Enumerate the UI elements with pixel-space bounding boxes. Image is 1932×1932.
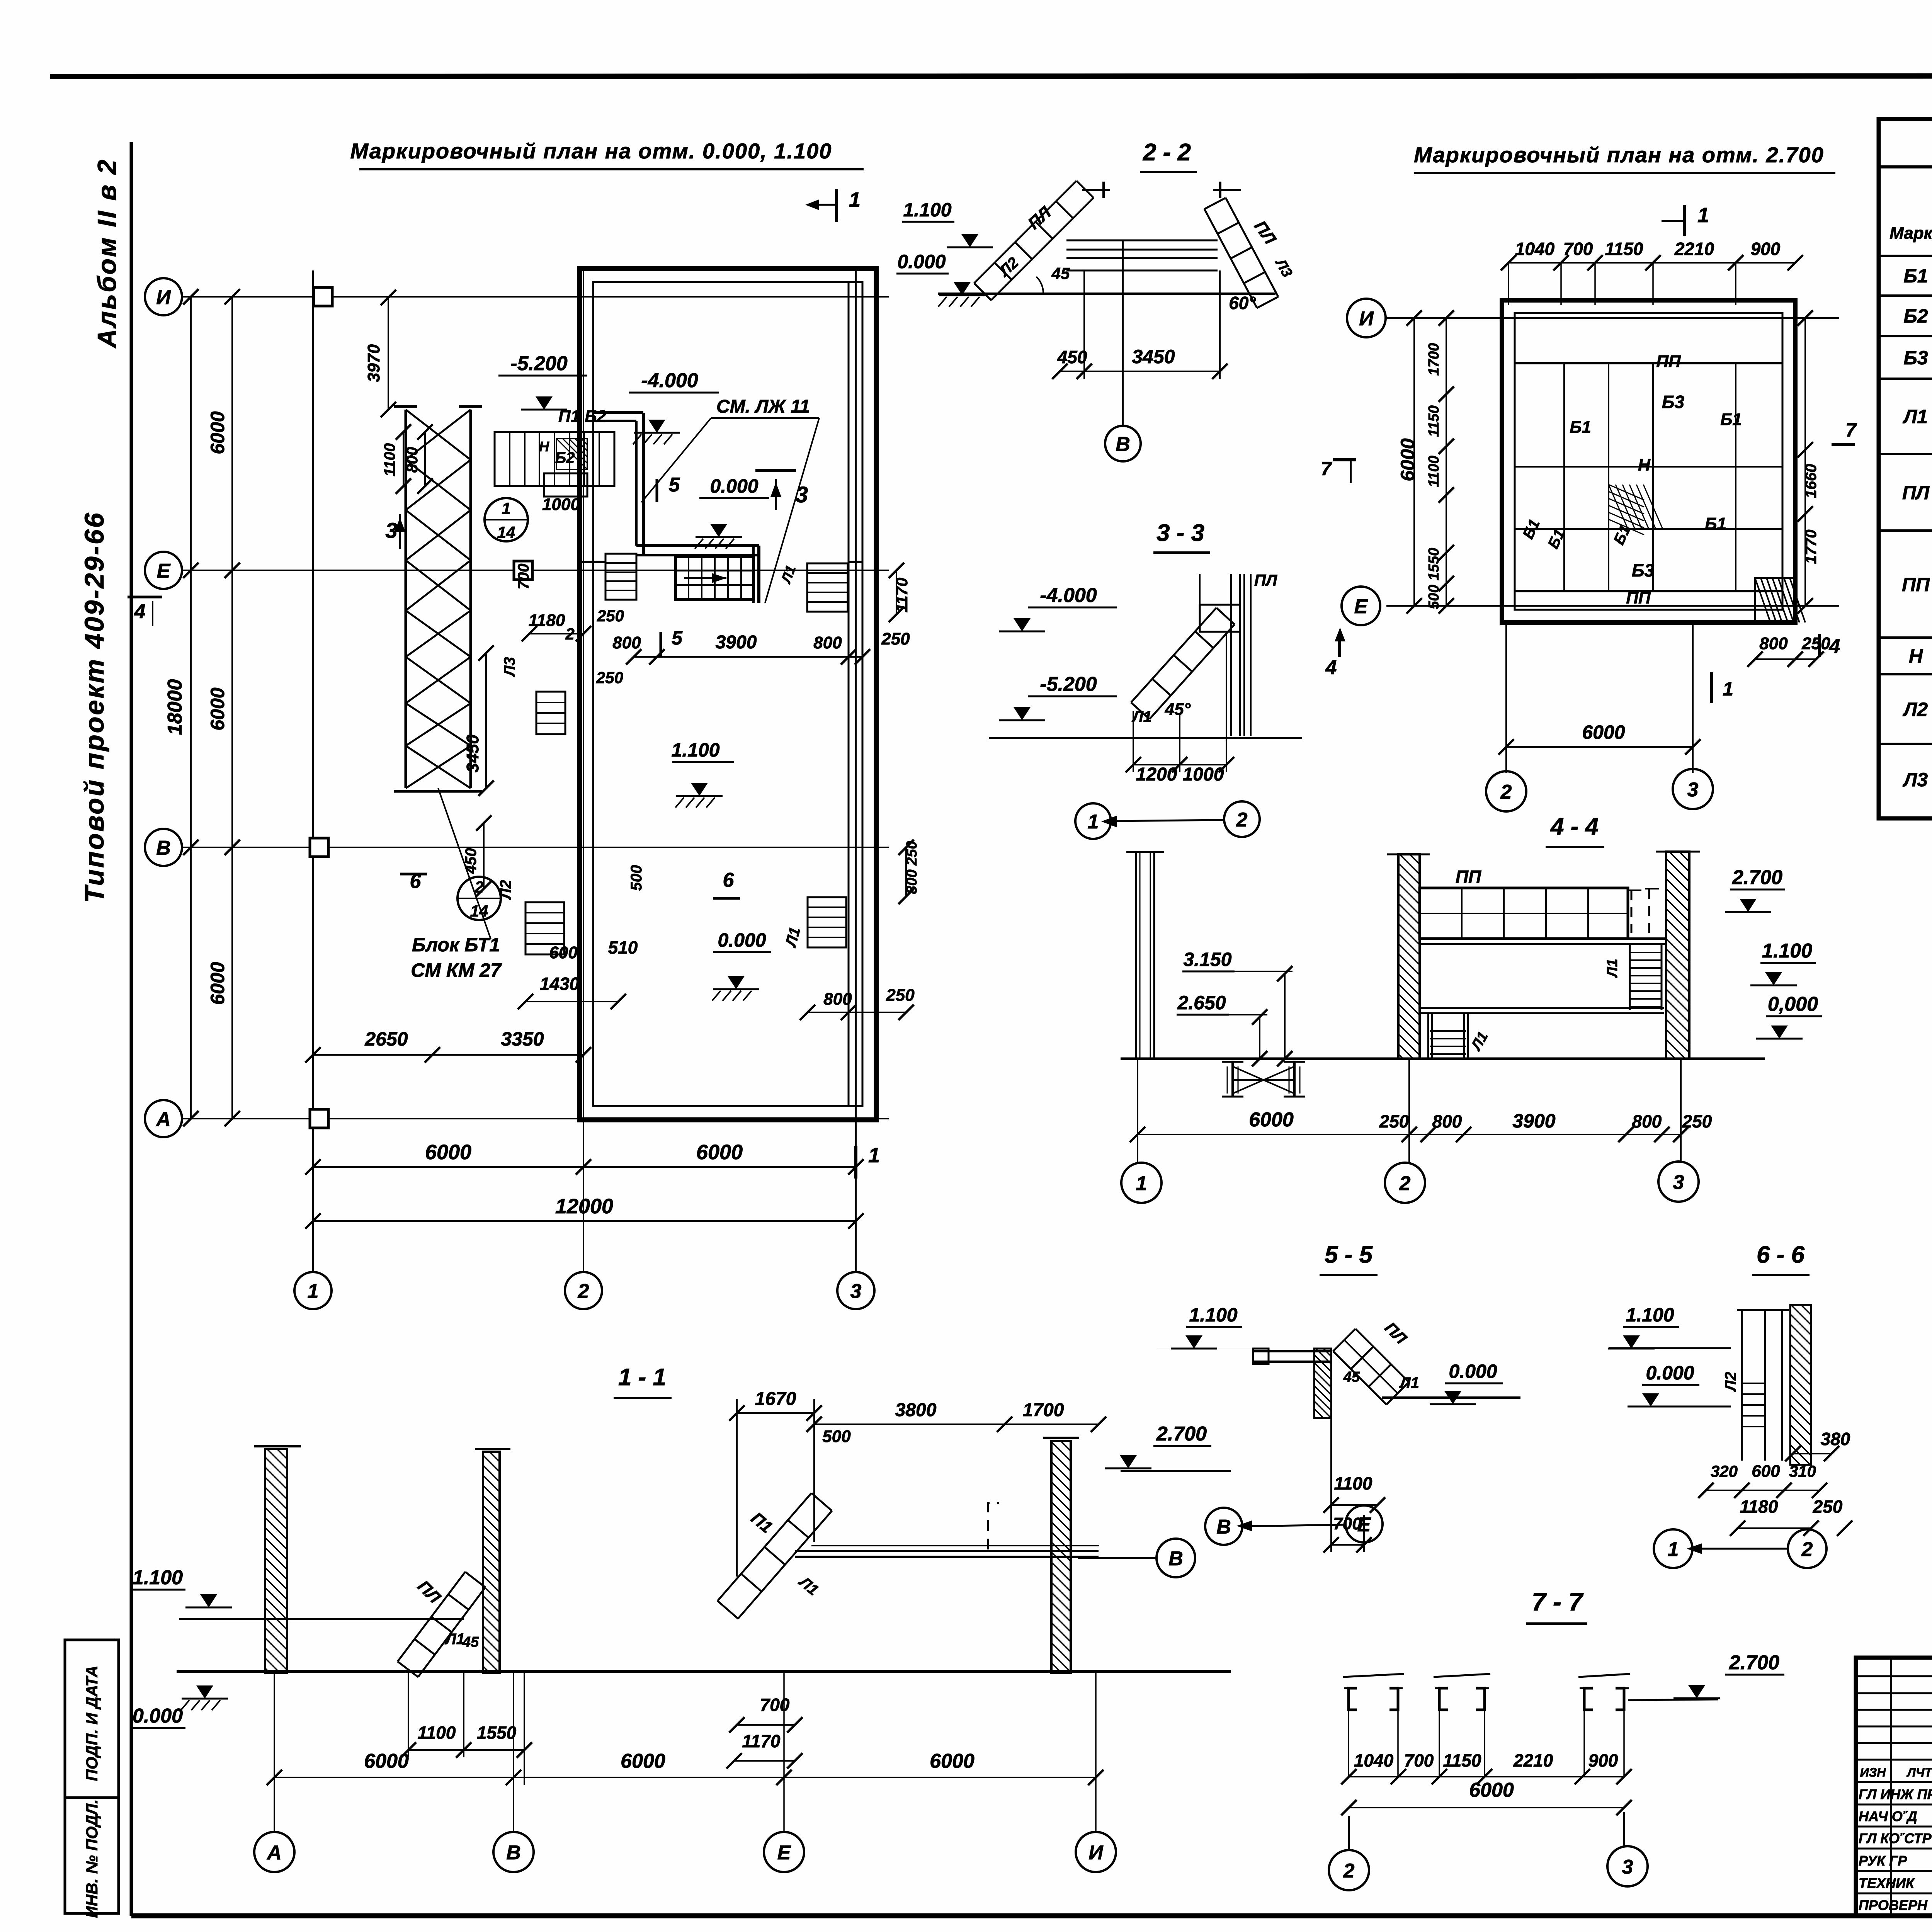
svg-text:2650: 2650 <box>364 1028 408 1050</box>
svg-text:250: 250 <box>1682 1111 1712 1131</box>
svg-text:СМ. ЛЖ 11: СМ. ЛЖ 11 <box>716 396 810 417</box>
svg-text:0,000: 0,000 <box>1768 993 1818 1015</box>
svg-text:3: 3 <box>1622 1856 1633 1878</box>
svg-text:6000: 6000 <box>1582 721 1625 743</box>
svg-text:В: В <box>156 837 171 859</box>
svg-text:450: 450 <box>1057 347 1087 367</box>
svg-text:1.100: 1.100 <box>671 739 719 761</box>
svg-text:2: 2 <box>1343 1860 1355 1882</box>
svg-text:Л1: Л1 <box>1903 406 1928 427</box>
svg-text:3: 3 <box>1687 779 1699 801</box>
svg-text:6000: 6000 <box>207 962 228 1005</box>
svg-text:СМ КМ 27: СМ КМ 27 <box>411 959 502 981</box>
svg-text:4 - 4: 4 - 4 <box>1550 813 1599 840</box>
svg-text:800: 800 <box>813 633 842 652</box>
svg-text:1040: 1040 <box>1515 239 1555 259</box>
svg-text:250: 250 <box>597 607 624 625</box>
svg-text:Л3: Л3 <box>501 657 518 677</box>
svg-text:3: 3 <box>1673 1171 1684 1194</box>
svg-text:7 - 7: 7 - 7 <box>1532 1587 1584 1616</box>
svg-text:0.000: 0.000 <box>133 1705 183 1727</box>
svg-text:0.000: 0.000 <box>718 929 766 951</box>
svg-text:6000: 6000 <box>696 1141 743 1164</box>
svg-text:Б3: Б3 <box>1903 347 1928 369</box>
svg-text:1.100: 1.100 <box>1626 1304 1674 1326</box>
svg-text:1: 1 <box>849 188 861 211</box>
svg-text:Л2: Л2 <box>1903 699 1928 720</box>
svg-text:1430: 1430 <box>540 974 580 994</box>
svg-text:Е: Е <box>777 1842 791 1864</box>
svg-text:4: 4 <box>1325 656 1337 679</box>
svg-text:250: 250 <box>1801 634 1830 653</box>
svg-text:1550: 1550 <box>477 1723 517 1743</box>
svg-text:И: И <box>1088 1842 1104 1864</box>
svg-text:Б2: Б2 <box>555 449 575 466</box>
svg-text:ПП: ПП <box>1902 574 1930 595</box>
svg-text:Н: Н <box>1909 645 1923 667</box>
svg-text:2210: 2210 <box>1674 239 1714 259</box>
svg-text:2: 2 <box>474 878 483 896</box>
svg-text:1180: 1180 <box>1740 1497 1778 1517</box>
svg-text:6000: 6000 <box>1249 1109 1294 1131</box>
svg-text:510: 510 <box>608 937 638 957</box>
svg-text:1100: 1100 <box>1334 1473 1372 1493</box>
svg-text:И: И <box>1359 308 1374 330</box>
svg-text:6000: 6000 <box>425 1141 471 1164</box>
svg-text:1150: 1150 <box>1426 405 1442 437</box>
svg-text:Е: Е <box>1357 1514 1371 1536</box>
svg-text:ПП: ПП <box>1456 867 1481 887</box>
svg-text:7: 7 <box>1321 458 1332 480</box>
svg-text:700: 700 <box>515 564 532 590</box>
svg-text:250: 250 <box>1379 1111 1409 1131</box>
svg-text:4: 4 <box>1829 635 1840 658</box>
svg-text:Б3: Б3 <box>1662 392 1685 412</box>
svg-text:14: 14 <box>497 523 515 541</box>
svg-text:0.000: 0.000 <box>897 251 946 272</box>
svg-text:6000: 6000 <box>621 1750 665 1772</box>
svg-text:6: 6 <box>723 869 735 891</box>
svg-text:500: 500 <box>822 1427 851 1446</box>
svg-text:Л2: Л2 <box>1722 1372 1739 1392</box>
svg-text:2: 2 <box>1500 781 1512 803</box>
svg-text:6000: 6000 <box>364 1750 409 1772</box>
svg-text:6000: 6000 <box>207 411 228 454</box>
svg-text:800: 800 <box>1432 1111 1462 1131</box>
svg-text:1550: 1550 <box>1426 548 1442 581</box>
svg-text:2.700: 2.700 <box>1156 1423 1207 1445</box>
svg-text:250: 250 <box>1813 1497 1843 1517</box>
svg-text:1150: 1150 <box>1443 1750 1481 1770</box>
svg-text:250: 250 <box>886 986 915 1005</box>
svg-text:2 - 2: 2 - 2 <box>1143 139 1191 166</box>
svg-text:1.100: 1.100 <box>903 199 951 221</box>
svg-text:1: 1 <box>1088 811 1099 833</box>
svg-text:7: 7 <box>1845 419 1857 441</box>
svg-text:Л2: Л2 <box>497 880 514 900</box>
svg-text:800: 800 <box>823 990 852 1009</box>
svg-text:Б1: Б1 <box>1903 265 1928 287</box>
svg-text:450: 450 <box>463 848 480 874</box>
svg-text:-4.000: -4.000 <box>641 369 698 392</box>
svg-text:2: 2 <box>1236 809 1248 831</box>
svg-text:1100: 1100 <box>1426 456 1442 487</box>
svg-text:1: 1 <box>502 499 510 517</box>
svg-text:А: А <box>155 1108 171 1131</box>
svg-text:1170: 1170 <box>893 578 911 612</box>
svg-text:6 - 6: 6 - 6 <box>1757 1242 1805 1268</box>
svg-text:2: 2 <box>565 625 574 643</box>
svg-text:ИЗН: ИЗН <box>1860 1765 1886 1779</box>
svg-text:1100: 1100 <box>418 1723 456 1743</box>
svg-text:1700: 1700 <box>1426 343 1442 376</box>
svg-text:1.100: 1.100 <box>1189 1304 1237 1326</box>
svg-text:Марка: Марка <box>1889 224 1932 243</box>
svg-text:5: 5 <box>672 627 683 649</box>
svg-text:1100: 1100 <box>381 443 398 476</box>
svg-text:ЛЧТ: ЛЧТ <box>1906 1765 1932 1779</box>
svg-text:Е: Е <box>157 560 171 582</box>
svg-text:Типовой проект 409-29-66: Типовой проект 409-29-66 <box>79 511 109 903</box>
svg-text:12000: 12000 <box>555 1195 613 1218</box>
svg-text:310: 310 <box>1789 1462 1816 1480</box>
svg-text:В: В <box>1168 1548 1183 1570</box>
svg-text:1: 1 <box>1723 678 1733 700</box>
svg-text:В: В <box>1216 1516 1231 1538</box>
svg-text:1.100: 1.100 <box>1762 940 1812 962</box>
svg-text:1: 1 <box>308 1280 319 1303</box>
svg-text:НАЧ О῎Д: НАЧ О῎Д <box>1859 1808 1917 1824</box>
svg-text:И: И <box>156 286 171 309</box>
svg-text:ГЛ ИНЖ ПР: ГЛ ИНЖ ПР <box>1859 1786 1932 1802</box>
svg-text:РУК ГР: РУК ГР <box>1859 1853 1907 1869</box>
svg-text:1.100: 1.100 <box>133 1566 183 1589</box>
svg-text:3970: 3970 <box>364 344 383 382</box>
svg-text:2.650: 2.650 <box>1177 992 1226 1014</box>
svg-text:ПП: ПП <box>1656 352 1681 371</box>
svg-text:Альбом II в 2: Альбом II в 2 <box>92 158 122 349</box>
svg-text:1: 1 <box>1697 204 1709 227</box>
svg-text:6000: 6000 <box>930 1750 975 1772</box>
svg-text:Н: Н <box>539 439 549 454</box>
svg-text:0.000: 0.000 <box>1646 1362 1694 1384</box>
svg-text:18000: 18000 <box>164 679 186 735</box>
svg-text:6000: 6000 <box>207 687 228 730</box>
svg-text:45: 45 <box>462 1634 479 1650</box>
svg-text:3800: 3800 <box>895 1400 937 1420</box>
svg-text:ИНВ. № ПОДЛ.: ИНВ. № ПОДЛ. <box>83 1799 101 1918</box>
svg-text:250: 250 <box>596 668 623 687</box>
svg-text:Б1: Б1 <box>1705 514 1726 533</box>
svg-text:800: 800 <box>1759 634 1788 653</box>
svg-text:Б3: Б3 <box>1632 560 1655 580</box>
svg-text:700: 700 <box>1563 239 1593 259</box>
svg-text:700: 700 <box>760 1695 790 1715</box>
svg-text:1000: 1000 <box>1183 764 1224 785</box>
svg-text:600: 600 <box>1752 1462 1780 1481</box>
svg-text:900: 900 <box>1751 239 1781 259</box>
svg-text:Л1: Л1 <box>1131 708 1152 725</box>
svg-text:800: 800 <box>1632 1111 1662 1131</box>
svg-text:3: 3 <box>796 482 808 507</box>
svg-text:380: 380 <box>1821 1429 1850 1449</box>
svg-text:Б1: Б1 <box>1720 410 1742 429</box>
svg-text:-5.200: -5.200 <box>510 352 568 375</box>
svg-text:800: 800 <box>612 633 641 652</box>
svg-text:-4.000: -4.000 <box>1040 584 1097 607</box>
svg-text:-5.200: -5.200 <box>1040 673 1097 696</box>
svg-text:0.000: 0.000 <box>1449 1361 1497 1382</box>
svg-text:6000: 6000 <box>1397 438 1418 481</box>
svg-text:5: 5 <box>669 474 680 496</box>
svg-text:1670: 1670 <box>755 1389 796 1409</box>
svg-text:3450: 3450 <box>463 735 482 772</box>
svg-text:1: 1 <box>1668 1538 1679 1561</box>
svg-text:ПОДП. И ДАТА: ПОДП. И ДАТА <box>83 1666 101 1781</box>
svg-text:700: 700 <box>1404 1750 1434 1770</box>
svg-text:ТЕХНИК: ТЕХНИК <box>1859 1875 1915 1891</box>
svg-text:3900: 3900 <box>716 632 757 653</box>
svg-text:Л3: Л3 <box>1903 769 1928 791</box>
svg-text:2: 2 <box>1399 1172 1411 1195</box>
svg-text:3900: 3900 <box>1512 1110 1555 1132</box>
svg-text:2.700: 2.700 <box>1729 1651 1779 1674</box>
svg-text:Л1: Л1 <box>444 1631 465 1648</box>
svg-text:В: В <box>506 1842 521 1864</box>
svg-text:Л1: Л1 <box>1604 959 1621 978</box>
svg-text:500: 500 <box>628 865 645 891</box>
svg-text:14: 14 <box>470 902 488 920</box>
svg-text:45: 45 <box>1343 1369 1360 1385</box>
svg-text:ГЛ КО῎СТР: ГЛ КО῎СТР <box>1859 1830 1932 1846</box>
svg-text:900: 900 <box>1588 1750 1618 1770</box>
svg-text:3350: 3350 <box>501 1028 544 1050</box>
svg-text:3.150: 3.150 <box>1183 949 1231 970</box>
svg-text:Е: Е <box>1354 595 1368 618</box>
svg-text:Б2: Б2 <box>1903 305 1928 327</box>
svg-text:2: 2 <box>578 1280 589 1303</box>
svg-text:45: 45 <box>1051 264 1070 282</box>
svg-text:1: 1 <box>1136 1172 1147 1195</box>
svg-text:Маркировочный план на отм.: Маркировочный план на отм. 2.700 <box>1414 143 1824 167</box>
svg-text:1150: 1150 <box>1605 239 1643 259</box>
svg-text:3 - 3: 3 - 3 <box>1156 520 1204 546</box>
svg-text:1170: 1170 <box>742 1731 781 1751</box>
svg-text:320: 320 <box>1711 1462 1738 1480</box>
svg-text:4: 4 <box>134 600 146 623</box>
svg-text:1040: 1040 <box>1354 1750 1394 1770</box>
svg-text:3450: 3450 <box>1132 346 1175 367</box>
svg-text:600: 600 <box>549 943 578 962</box>
svg-text:5 - 5: 5 - 5 <box>1325 1242 1373 1268</box>
svg-text:Б1: Б1 <box>1570 418 1591 437</box>
svg-text:Блок БТ1: Блок БТ1 <box>412 934 500 956</box>
svg-text:А: А <box>266 1842 282 1864</box>
svg-text:500: 500 <box>1426 585 1442 609</box>
svg-text:1: 1 <box>868 1144 880 1167</box>
svg-text:45°: 45° <box>1165 700 1191 719</box>
svg-text:2.700: 2.700 <box>1732 866 1782 889</box>
svg-text:Н: Н <box>1638 456 1651 474</box>
svg-text:6000: 6000 <box>1469 1779 1514 1801</box>
svg-text:60°: 60° <box>1229 293 1256 313</box>
svg-text:1180: 1180 <box>529 611 565 630</box>
svg-text:ПРОВЕРН: ПРОВЕРН <box>1859 1897 1928 1913</box>
svg-text:П1 Б2: П1 Б2 <box>558 407 606 426</box>
svg-text:1000: 1000 <box>542 495 580 514</box>
svg-text:1700: 1700 <box>1023 1400 1064 1420</box>
svg-text:ПЛ: ПЛ <box>1902 482 1930 503</box>
svg-text:250: 250 <box>881 629 910 648</box>
svg-text:800: 800 <box>404 447 421 473</box>
svg-text:ПЛ: ПЛ <box>1254 571 1277 589</box>
svg-text:0.000: 0.000 <box>710 475 758 497</box>
svg-text:1200: 1200 <box>1136 764 1177 785</box>
svg-text:3: 3 <box>850 1280 862 1303</box>
svg-text:Маркировочный план на отм.: Маркировочный план на отм. 0.000, 1.100 <box>350 139 832 163</box>
svg-text:1 - 1: 1 - 1 <box>618 1364 666 1391</box>
svg-text:В: В <box>1116 433 1130 456</box>
svg-text:ПП: ПП <box>1626 588 1651 607</box>
svg-text:2: 2 <box>1801 1538 1813 1561</box>
svg-text:2210: 2210 <box>1513 1750 1553 1770</box>
svg-text:Л1: Л1 <box>1399 1374 1419 1391</box>
